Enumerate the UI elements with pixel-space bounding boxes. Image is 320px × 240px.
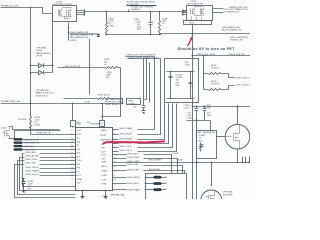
- node CHGR_CSIP row: [119, 104, 169, 145]
- svg-text:CHGR_AMON: CHGR_AMON: [127, 176, 140, 179]
- underlined net row a: [126, 54, 156, 57]
- junction Q7005 pin c: [182, 14, 183, 15]
- svg-text:PPBUS_G3H 1 B4: PPBUS_G3H 1 B4: [229, 54, 246, 56]
- wire stem rb1: [72, 104, 74, 121]
- svg-text:SCL: SCL: [77, 138, 80, 140]
- junction R7003 top: [105, 11, 106, 12]
- label IC internal right pin names: [101, 129, 108, 185]
- svg-text:U7000: U7000: [76, 124, 83, 126]
- svg-text:X5R: X5R: [176, 85, 180, 87]
- junction R7003 bottom: [105, 34, 106, 35]
- svg-text:CHGR_SGATE: CHGR_SGATE: [119, 127, 133, 130]
- capacitor C7021: [169, 72, 173, 99]
- svg-text:6: 6: [72, 179, 73, 181]
- wire nested corner 4: [15, 165, 76, 198]
- label IC internal left pin names: [77, 130, 83, 185]
- wire connector stubs: [243, 157, 250, 163]
- transistor Q7003 internals: [59, 8, 72, 19]
- resistor pack box under Q7005: [184, 21, 212, 25]
- wire to Q7003 gate step: [31, 8, 53, 14]
- svg-text:X5R: X5R: [28, 189, 32, 191]
- arrow Q7003 pin: [68, 26, 70, 28]
- svg-text:PU DRVP: PU DRVP: [18, 119, 27, 121]
- junction Q7003 pin c: [84, 14, 85, 15]
- junction FET source: [237, 162, 238, 163]
- wire bottom bus: [144, 162, 251, 164]
- svg-text:CELL: CELL: [77, 149, 81, 151]
- wire diode output vertical: [52, 14, 54, 73]
- junction circle top feed: [237, 105, 238, 106]
- node CHGR_IMON row with tag: [127, 182, 167, 185]
- svg-text:ACDET: ACDET: [101, 134, 108, 137]
- node CHGR_SGATE row: [119, 57, 155, 130]
- resistor R7089: [159, 12, 161, 35]
- wire branch vertical: [203, 56, 205, 90]
- wire vertical x196 down: [196, 121, 198, 200]
- junction R7005 join: [101, 116, 102, 117]
- svg-text:VCHG: VCHG: [77, 160, 83, 162]
- junction sgate row: [68, 32, 69, 33]
- wire Q7003 right pins: [77, 11, 85, 15]
- resistor R7003: [106, 12, 108, 35]
- svg-text:CSON: CSON: [101, 155, 107, 157]
- transistor Q7080 internals: [226, 125, 240, 149]
- resistor R7090: [30, 117, 32, 129]
- capacitor C7094: [22, 179, 26, 191]
- wire main top bus: [85, 11, 187, 13]
- junction Q7005 bus: [192, 33, 194, 35]
- wire CHGR_RST_A to IC: [31, 134, 76, 136]
- wire nested corner 3: [18, 161, 76, 195]
- node CHGR_VCHG: [25, 159, 76, 161]
- junction left bus row: [30, 103, 31, 104]
- wire caps top rail: [167, 71, 195, 73]
- wire R7022 out: [223, 74, 235, 78]
- resistor R7022: [204, 73, 223, 75]
- svg-text:CHGR_PHAS_B: CHGR_PHAS_B: [25, 170, 40, 173]
- junction Q7003 pin a: [84, 9, 85, 10]
- junction Q7003 pin b: [84, 12, 85, 13]
- resistor R7023: [204, 89, 223, 91]
- wire label stub x128: [128, 10, 130, 12]
- svg-text:CHGR_ACN: CHGR_ACN: [25, 151, 36, 154]
- svg-text:CHGR_SDA_PCH: CHGR_SDA_PCH: [24, 142, 40, 145]
- svg-text:ACP 23: ACP 23: [106, 139, 114, 142]
- diode D7005 b: [31, 71, 53, 75]
- svg-text:PPBUS_G3H_CHGR: PPBUS_G3H_CHGR: [197, 54, 216, 56]
- wire R7023 out: [223, 86, 235, 90]
- svg-text:30: 30: [71, 167, 73, 169]
- tag SMBUS_CHGR_SCL: [14, 138, 76, 141]
- svg-text:4.7UF: 4.7UF: [205, 107, 211, 109]
- svg-text:2: 2: [72, 130, 73, 132]
- svg-text:CHGRDET: CHGRDET: [131, 9, 141, 11]
- junction smbus join: [122, 103, 123, 104]
- svg-text:CHGR_LX5_A: CHGR_LX5_A: [25, 173, 38, 176]
- svg-text:BAS3007A-RFG: BAS3007A-RFG: [37, 52, 51, 55]
- junction caps bottom: [170, 98, 171, 99]
- transistor Q7080 round-can FET: [225, 124, 250, 149]
- junction bottom bus b: [211, 162, 213, 164]
- junction C7088 top: [150, 11, 151, 12]
- net text row long a: [149, 158, 184, 161]
- svg-text:W1501: W1501: [71, 40, 78, 42]
- underlined net row b: [128, 57, 161, 59]
- svg-text:AVS_SYSREV: AVS_SYSREV: [149, 158, 162, 161]
- wire IC right pin stubs: [113, 130, 144, 190]
- junction stem rb1: [72, 103, 73, 104]
- ground IC bottom: [81, 197, 108, 199]
- svg-text:THERMAL_PAD: THERMAL_PAD: [111, 194, 126, 197]
- junction C7088 bottom: [150, 34, 151, 35]
- svg-text:CHGR_ACDET: CHGR_ACDET: [119, 133, 133, 136]
- svg-text:0.05UF: 0.05UF: [177, 159, 184, 161]
- transistor Q7005 dual PFET box: [187, 6, 213, 21]
- svg-text:26: 26: [71, 175, 73, 177]
- wire nested corner 1: [23, 154, 76, 187]
- resistor R7002 box: [100, 121, 105, 127]
- junction C7094: [22, 177, 23, 178]
- junction branch mid: [203, 73, 204, 74]
- svg-text:CHGR_VDD: CHGR_VDD: [25, 163, 36, 165]
- junction Q7005 pin a: [182, 9, 183, 10]
- wire box to circle row: [193, 106, 251, 108]
- junction diode 1: [30, 65, 31, 66]
- svg-text:CHGR_IMON: CHGR_IMON: [127, 183, 139, 185]
- junction bus x128: [128, 11, 129, 12]
- resistor R7001 box: [71, 121, 76, 127]
- svg-text:PCHGRDET=0.2V: PCHGRDET=0.2V: [224, 12, 240, 14]
- svg-text:27: 27: [71, 164, 73, 166]
- wire stem rb2: [102, 104, 104, 121]
- svg-text:CHGR_CSI_N: CHGR_CSI_N: [119, 146, 132, 148]
- node CHGR_AMON2 row with tag: [127, 176, 167, 179]
- svg-text:OPTIONAL: OPTIONAL: [223, 191, 234, 194]
- resistor R7005: [106, 67, 121, 69]
- svg-text:CHGR_RST_A: CHGR_RST_A: [36, 132, 51, 135]
- svg-text:24: 24: [71, 145, 73, 147]
- junction top-left: [30, 7, 31, 8]
- svg-text:OPTIONAL: OPTIONAL: [37, 46, 48, 49]
- svg-text:(NO STUFF): (NO STUFF): [149, 169, 160, 171]
- svg-text:CHGR_LGATE: CHGR_LGATE: [127, 160, 141, 163]
- wire R7005 to IC: [103, 68, 121, 117]
- svg-text:CHGR_CSO_P: CHGR_CSO_P: [119, 150, 133, 152]
- wire caps bottom rail: [167, 98, 195, 100]
- wire underline net row: [127, 5, 157, 7]
- svg-text:16: 16: [114, 166, 116, 168]
- svg-text:PPVBAT_4S_CHG: PPVBAT_4S_CHG: [1, 4, 19, 7]
- svg-text:UTEMP_BATID: UTEMP_BATID: [127, 188, 141, 191]
- wire vertical pair right of box: [192, 163, 194, 200]
- svg-text:CHGR_LGAT: CHGR_LGAT: [127, 163, 139, 166]
- svg-text:4: 4: [72, 160, 73, 162]
- svg-text:RF-7R: RF-7R: [37, 56, 43, 58]
- capacitor C7088: [149, 12, 153, 35]
- ground C7094: [23, 191, 27, 193]
- svg-text:+PPBUS_S2R_CHGR_RSENSE A: +PPBUS_S2R_CHGR_RSENSE A: [126, 54, 156, 57]
- junction stub b: [245, 162, 246, 163]
- wire IC bottom pins: [83, 191, 106, 197]
- svg-text:4S3T DUAL PCH/P: 4S3T DUAL PCH/P: [187, 3, 204, 6]
- svg-text:5%: 5%: [162, 23, 165, 25]
- junction stub a: [241, 162, 242, 163]
- transistor Q7010: [3, 128, 10, 139]
- svg-text:R7010 100 1%: R7010 100 1%: [98, 95, 111, 97]
- tag CHGR_INT_L: [14, 145, 76, 148]
- svg-text:PPVBAT_S2R_CHG: PPVBAT_S2R_CHG: [1, 100, 21, 103]
- svg-text:1%: 1%: [104, 64, 107, 66]
- node CHGR_CSOP row: [119, 104, 177, 153]
- annotation red strike: [104, 141, 165, 143]
- svg-text:10.2K 1%: 10.2K 1%: [211, 84, 219, 86]
- junction Q7005 pin b: [182, 12, 183, 13]
- wire mid bus PPBUS: [107, 34, 251, 35]
- wire nested corner 2: [20, 158, 76, 191]
- svg-text:CHGR_CELL: CHGR_CELL: [24, 150, 36, 152]
- svg-text:0.10UF: 0.10UF: [173, 153, 180, 155]
- svg-text:8: 8: [72, 149, 73, 151]
- junction diode out: [52, 65, 53, 66]
- wire caps bottom rail y119.7: [187, 121, 211, 131]
- svg-text:Should be 6V to turn on FET: Should be 6V to turn on FET: [178, 47, 236, 51]
- svg-text:29: 29: [71, 171, 73, 173]
- svg-text:SGATE: SGATE: [101, 129, 107, 132]
- svg-text:11: 11: [71, 137, 73, 139]
- junction R7089 top: [159, 11, 160, 12]
- svg-text:CHGR_SCL_PCH: CHGR_SCL_PCH: [24, 139, 40, 141]
- tag CHGR_CELL: [14, 148, 76, 151]
- svg-text:5: 5: [114, 175, 115, 177]
- node CHGR_VDD: [25, 163, 76, 165]
- annotation red arrow: [188, 36, 193, 46]
- label IC pin numbers right: [114, 129, 118, 185]
- svg-text:CHGR_VDDA_R: CHGR_VDDA_R: [105, 103, 120, 106]
- junction caps rail: [196, 120, 197, 121]
- junction C7024 top: [203, 106, 204, 107]
- wire Q7010 to IC: [9, 127, 61, 139]
- tag SMBUS_CHGR_SDA: [14, 142, 76, 145]
- transistor Q7081 optional round FET: [201, 190, 222, 211]
- capacitor C7024: [203, 107, 207, 121]
- svg-text:CHGR_VCHG: CHGR_VCHG: [25, 159, 38, 161]
- svg-text:CHGR_SLEW: CHGR_SLEW: [127, 169, 139, 171]
- wire left vertical bus: [30, 8, 32, 135]
- thermistor box: [197, 131, 217, 159]
- resistor pack ticks: [192, 17, 202, 21]
- capacitor C7023: [195, 107, 199, 121]
- thermistor symbol: [200, 143, 204, 152]
- node CHGR_BSTP row: [127, 153, 180, 174]
- junction caps top: [170, 71, 171, 72]
- svg-text:X5R: X5R: [207, 115, 211, 117]
- capacitor C7022: [189, 72, 193, 99]
- wire Q7005 right pins: [213, 9, 224, 13]
- wire box to FET: [217, 136, 226, 138]
- svg-text:COMP: COMP: [102, 175, 108, 177]
- junction bottom bus a: [196, 162, 198, 164]
- wire sgate net down: [89, 39, 91, 95]
- svg-text:PGND: PGND: [129, 104, 135, 106]
- node CHGR_ACP: [25, 155, 76, 158]
- svg-text:10: 10: [71, 141, 73, 143]
- junction R7089 bottom: [159, 34, 160, 35]
- wire right bus y55: [193, 55, 251, 57]
- svg-text:CHGR_PGRM: CHGR_PGRM: [127, 157, 140, 159]
- label PGND box: [127, 99, 141, 106]
- svg-text:33: 33: [114, 179, 116, 181]
- wire FET source to bus: [237, 149, 239, 163]
- node CHGR_PHS_A: [25, 166, 76, 169]
- wire optional FET drain with arrow: [211, 163, 213, 186]
- op-amp U7000 charger IC box: [76, 128, 113, 191]
- wire Q7003 bottom pin: [68, 23, 70, 41]
- wire row scrb: [58, 67, 106, 69]
- node CHGR_LGAT2 row: [127, 163, 183, 173]
- svg-text:18: 18: [71, 156, 73, 158]
- svg-text:AMON: AMON: [102, 165, 108, 168]
- svg-text:1.0M: 1.0M: [185, 65, 190, 67]
- node CHGR_CSIN row: [119, 104, 173, 149]
- junction caps bottom b: [190, 98, 191, 99]
- label IC pin numbers left: [71, 130, 73, 181]
- svg-text:BGATE: BGATE: [102, 170, 108, 173]
- wire Q7005 left pin bus: [183, 11, 187, 15]
- wire smbus row: [64, 98, 98, 100]
- capacitor C7041: [142, 102, 146, 111]
- wire FET drain vertical: [237, 107, 239, 125]
- transistor Q7005 internals: [191, 7, 204, 16]
- svg-text:PCHGR=1 4W: PCHGR=1 4W: [230, 40, 243, 42]
- wire riser extra: [149, 63, 151, 103]
- node CHGR_PGRM row: [127, 157, 178, 174]
- svg-text:R7008 100 1%: R7008 100 1%: [36, 95, 49, 97]
- svg-text:JT99 BAS 1000: JT99 BAS 1000: [36, 89, 50, 92]
- svg-text:1/16W: 1/16W: [108, 26, 114, 28]
- wire top-left horizontal: [1, 7, 31, 9]
- svg-text:CHGR_CSOP_4: CHGR_CSOP_4: [235, 77, 250, 79]
- node CHGR_LX5_A: [25, 173, 76, 176]
- svg-text:NTC: NTC: [199, 140, 204, 142]
- junction diode 2: [30, 72, 31, 73]
- junction right bus: [192, 55, 193, 56]
- svg-text:D7005: D7005: [37, 50, 44, 52]
- node CHGR_BATID row with tag: [127, 188, 167, 191]
- junction stem rb2: [101, 103, 102, 104]
- wire underline sgate: [70, 33, 98, 35]
- wire C7041 feed a: [143, 59, 145, 102]
- node CHGR_LX5_A: [25, 170, 76, 173]
- junction C7023 top: [196, 106, 197, 107]
- svg-text:4R7X4: 4R7X4: [189, 23, 194, 25]
- svg-text:CHGR_PHS_A: CHGR_PHS_A: [25, 166, 39, 169]
- node CHGR_SLEW row: [127, 169, 185, 174]
- svg-text:Q7010: Q7010: [1, 127, 8, 129]
- svg-text:NO STUFF: NO STUFF: [223, 194, 233, 196]
- junction long vertical mid: [192, 86, 193, 87]
- group box bottom: [146, 174, 187, 200]
- svg-text:PACK: PACK: [129, 100, 135, 103]
- svg-text:ISL9538HRTZ: ISL9538HRTZ: [91, 124, 104, 126]
- svg-text:VA_CHG_BMON=1.8V: VA_CHG_BMON=1.8V: [222, 29, 242, 32]
- transistor Q7003 dual PFET box: [53, 6, 77, 22]
- svg-text:10.2K 1%: 10.2K 1%: [211, 67, 219, 69]
- svg-text:LX5: LX5: [77, 171, 80, 173]
- svg-text:0.1UF: 0.1UF: [184, 107, 190, 109]
- junction stub c: [248, 162, 249, 163]
- svg-text:17: 17: [71, 152, 73, 154]
- ground C7041: [142, 111, 146, 114]
- svg-text:4.7UF: 4.7UF: [85, 102, 91, 104]
- wire long vertical from Q7005 bus: [192, 34, 194, 163]
- wire Q7005 lower pin to bus: [192, 25, 194, 34]
- wire C7041 feed b: [144, 59, 147, 100]
- junction y105 left: [192, 105, 193, 106]
- svg-text:CHGR_AGATE: CHGR_AGATE: [119, 137, 133, 140]
- transistor Q7081 internals: [206, 192, 215, 203]
- svg-text:CHGR_BSTP: CHGR_BSTP: [127, 153, 139, 155]
- svg-text:CHGR_INT_L: CHGR_INT_L: [24, 146, 37, 148]
- svg-text:31: 31: [71, 134, 73, 136]
- node CHGR_ACDET row: [119, 59, 161, 136]
- svg-text:CHGR_AMON_4SW: CHGR_AMON_4SW: [222, 26, 240, 29]
- group box capacitors: [165, 59, 199, 103]
- svg-text:PGND: PGND: [102, 183, 108, 185]
- node CHGR_LGATE bus row: [127, 160, 141, 163]
- node CHGR_ACN: [25, 151, 76, 154]
- diode D7005 a: [31, 64, 53, 68]
- resistor R7008: [98, 98, 123, 104]
- svg-text:CHGR_ACOMP: CHGR_ACOMP: [25, 155, 39, 158]
- svg-text:1/16W: 1/16W: [34, 125, 40, 127]
- svg-text:CHGR_CSON_4: CHGR_CSON_4: [235, 85, 250, 87]
- junction caps top b: [190, 71, 191, 72]
- wire row y104.5: [1, 103, 123, 105]
- junction branch top: [203, 55, 204, 56]
- svg-text:VA9_SGATE=0V 1W: VA9_SGATE=0V 1W: [70, 36, 88, 39]
- svg-text:BAT_THERMISTOR: BAT_THERMISTOR: [198, 131, 216, 134]
- node CHGR_AGATE row: [119, 104, 165, 141]
